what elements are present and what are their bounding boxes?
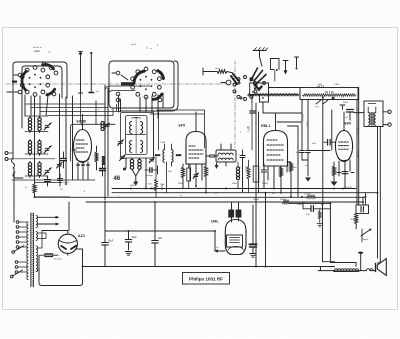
capacitor C20: [262, 164, 267, 189]
wire (top horizontal feeds): [105, 84, 235, 86]
resistor R18: [152, 157, 158, 197]
capacitor C9: [58, 174, 70, 186]
resistor R15 (boxed): [102, 156, 105, 165]
switch S1c (antenna section): [221, 68, 266, 101]
tube V1 ECH6 (mixer): [72, 115, 92, 181]
wire (loop around S1a): [13, 62, 67, 120]
wire (bus AVC): [112, 188, 356, 190]
mains transformer secondaries: [36, 216, 38, 272]
ground (C26): [125, 252, 131, 256]
antenna: [253, 48, 268, 67]
wire (T2 leads): [162, 144, 172, 193]
potentiometer R14 (tone reg): [361, 229, 372, 243]
wire (inner loop S1a): [22, 66, 62, 128]
wire (output stage drop): [330, 203, 356, 266]
coupling loop: [271, 59, 280, 82]
wire (ECH6 screen box): [70, 101, 115, 161]
mains transformer core: [31, 213, 34, 287]
tube V2 EF9 (IF amplifier): [179, 112, 207, 186]
wire (second feed line): [89, 52, 94, 93]
wire (heater arrows): [37, 216, 60, 226]
wire (outer box right of S1b): [120, 61, 178, 111]
resistor R9 (decoupling 10.000): [304, 194, 316, 199]
wire (speaker bottom): [321, 270, 376, 272]
wire (ballast right vertical): [265, 193, 267, 267]
capacitor C7: [45, 176, 51, 186]
wire (right enclosure): [300, 88, 359, 205]
switch arrows (Fern/Nah): [315, 100, 328, 109]
resistor R19: [317, 209, 323, 227]
wire (S1b to EF9 feed): [150, 110, 205, 148]
capacitor C32 (EF6 grid): [324, 140, 336, 146]
coil L3 L4 with trimmer C2: [28, 140, 51, 156]
capacitor C31: [61, 152, 67, 168]
coil L11: [236, 162, 239, 189]
capacitor C14: [206, 155, 218, 157]
capacitor C16: [300, 151, 305, 161]
trimmer C33: [193, 173, 199, 179]
resistor R12: [287, 162, 297, 197]
trimmer C11: [120, 155, 126, 161]
wire (ballast left arrow): [214, 249, 225, 252]
wire (S1a contacts to coil bank): [25, 94, 73, 184]
wire (left long vertical): [12, 120, 14, 158]
capacitor C17: [306, 151, 311, 177]
capacitor C30: [100, 165, 106, 176]
resistor R3b (boxed): [187, 164, 191, 189]
capacitor C27 (8uF): [152, 202, 163, 267]
capacitor C24 (electrolytic): [250, 205, 257, 253]
trimmer C8: [57, 162, 63, 168]
wire (screen feed verticals): [105, 85, 108, 200]
wire (EBL1 right vertical): [288, 126, 299, 197]
capacitor C12: [145, 168, 158, 177]
resistor R5 (antenna series): [203, 67, 233, 75]
capacitor C18 (coupling): [340, 102, 354, 116]
wire (grid line): [302, 151, 330, 161]
wire (crossbar wiring S1a to IF section): [25, 104, 121, 116]
wire (AZ1 anode feed): [42, 202, 83, 249]
trimmer C10: [118, 140, 124, 146]
resistor R4: [204, 162, 207, 193]
mains transformer primary: [27, 222, 29, 280]
switch S1a (wave change, section 1): [7, 62, 58, 96]
potentiometer R7 (volume): [300, 88, 358, 111]
resistor R13 (50.000): [351, 214, 358, 230]
resistor R6 (AVC, long): [253, 94, 299, 96]
resistor R10: [280, 199, 290, 204]
wire (IF1 to buses): [126, 158, 158, 189]
wire (earth bus bottom): [83, 266, 335, 268]
ground (C24): [250, 254, 256, 258]
terminal (pickup input): [5, 152, 13, 161]
IF transformer T2: [155, 150, 182, 163]
wire (HT rail): [105, 231, 215, 251]
wire (S1b box drop wires): [154, 111, 159, 157]
coil L7 L7b (padder pair): [123, 158, 141, 186]
wire (bus HT1): [34, 196, 366, 198]
coil L10 (screen choke): [101, 122, 109, 131]
wire (S1b feed fillets): [105, 86, 150, 96]
text AZ1: [78, 233, 86, 238]
text 46: [114, 176, 121, 182]
capacitor C22 C23 (RF bypass pair): [228, 202, 241, 222]
hum arrow: [359, 251, 363, 270]
wire (rectifier loop): [39, 249, 83, 286]
capacitor C29 (on AVC line): [248, 103, 256, 151]
IF transformer T3: [216, 150, 236, 162]
resistor R8 (cathode EF6): [332, 162, 335, 181]
output transformer T4: [364, 101, 383, 127]
wire (bus HT2): [86, 202, 363, 203]
resistor R1 (cathode, vertical zigzag): [33, 96, 36, 197]
annotation labels: [25, 44, 360, 256]
ground (EF6 cathode): [331, 182, 338, 187]
resistor R17 (boxed, AVC): [253, 166, 259, 182]
antenna coupling unit: [250, 82, 269, 103]
wire (antenna feed line with arrow): [78, 51, 82, 127]
wire (speaker left loop): [318, 205, 335, 271]
ground (T3): [215, 163, 219, 169]
tone box: [356, 193, 369, 214]
switch contact (mains on volume pot): [12, 158, 24, 222]
text pot label: [317, 86, 334, 94]
capacitor C26 (30uF): [125, 231, 137, 250]
wire (bottom-left rails): [34, 182, 70, 196]
label box (Philips 1001 RF): [183, 273, 230, 285]
resistor R11: [279, 167, 282, 193]
wire (T3 leads): [221, 144, 231, 166]
switch S1b (wave change, section 2): [112, 67, 163, 102]
mains voltage selector taps: [11, 221, 28, 278]
wire (winding taps): [37, 231, 46, 271]
terminal (aux antenna): [295, 57, 299, 70]
coil L1 L2 with trimmer C1: [28, 117, 51, 133]
coil L5 L6 with trimmer C3: [28, 162, 51, 178]
ballast tube V5 UML: [225, 220, 246, 255]
ground (EF6 grid): [305, 178, 311, 182]
wire (pot to EF6 coupling): [302, 100, 332, 205]
earth arrow: [283, 61, 288, 75]
voice coil L9: [367, 269, 373, 271]
capacitor C21 (tone): [303, 202, 330, 216]
capacitor C15: [238, 150, 245, 192]
rectifier V6 AZ1: [58, 231, 77, 256]
wire (switch gang dash-dot line): [6, 61, 235, 148]
terminal (ext speaker 1): [383, 110, 391, 113]
capacitor C25 (30uF): [102, 202, 114, 267]
IF transformer T1 (band filter): [121, 113, 154, 159]
trimmer C13: [149, 157, 155, 163]
speaker LS: [376, 259, 387, 276]
wire (bus grid return): [112, 192, 378, 194]
tube V4 EF6 (output): [335, 112, 352, 188]
resistor R2 (ECH6 grid): [95, 146, 98, 170]
wire (ant unit to volume pot): [252, 88, 302, 123]
capacitor C28: [40, 254, 62, 261]
wire (transformer primary feed): [350, 113, 364, 120]
tube V3 EBL1 (detector/output): [261, 113, 288, 189]
wire (box around S1b): [109, 61, 174, 108]
wire (speaker feed): [377, 127, 380, 264]
field coil L8: [334, 269, 359, 271]
resistor R16: [247, 160, 250, 193]
terminal (ext speaker 2): [383, 123, 391, 126]
capacitor C19: [337, 172, 354, 174]
wire (S1b contacts down to IF box): [119, 93, 164, 118]
text UML: [211, 220, 219, 224]
resistor R3: [178, 164, 185, 189]
wire (AVC vertical pair): [256, 103, 259, 267]
wire (coil bank bottom rail): [12, 116, 95, 180]
